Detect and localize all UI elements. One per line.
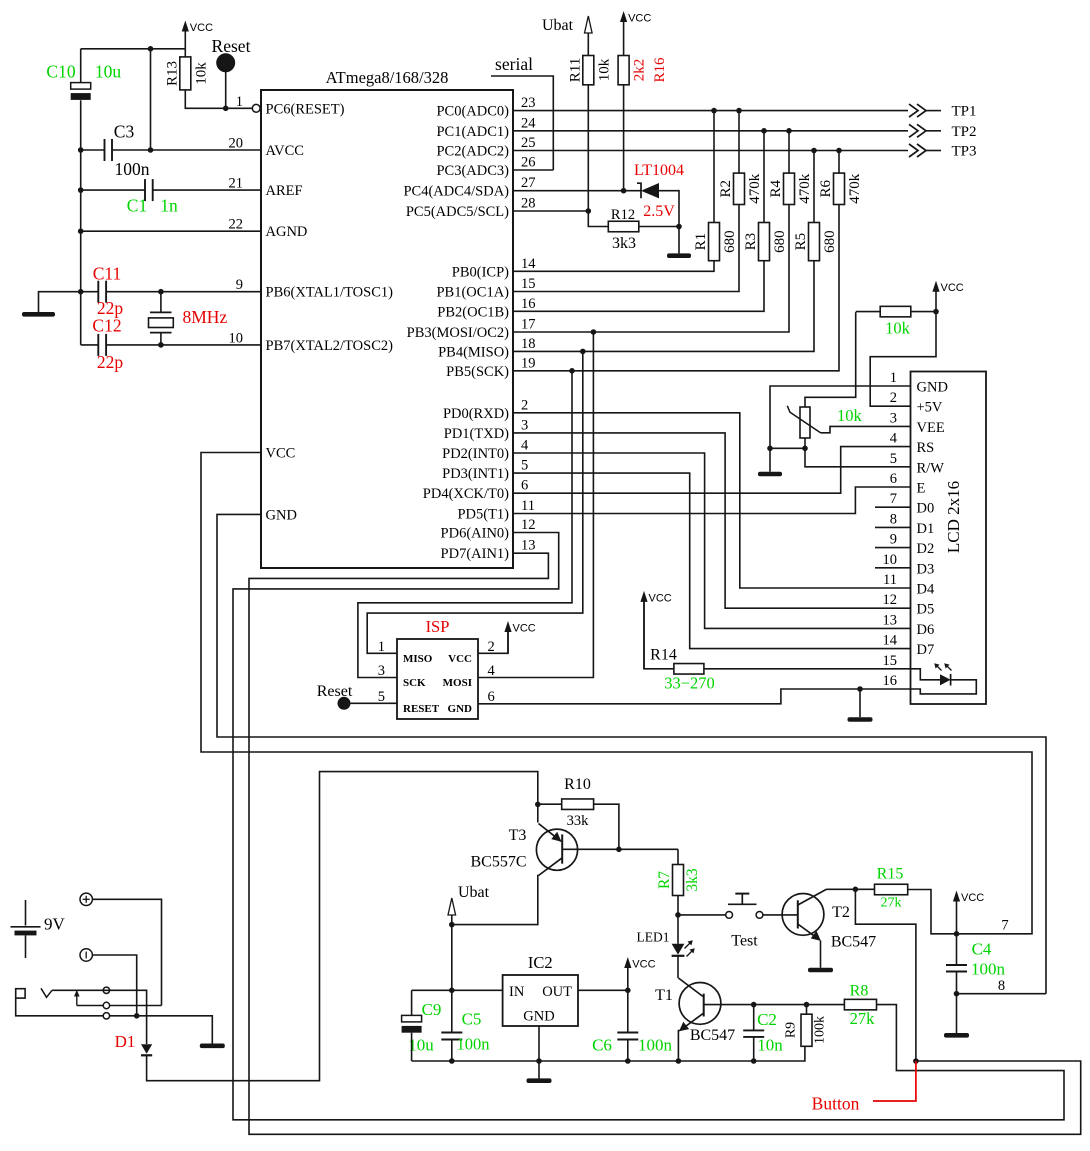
wire R7 top lead	[677, 849, 679, 864]
svg-text:C6: C6	[592, 1036, 612, 1055]
MCU pin 1 inverter circle	[252, 104, 260, 112]
svg-text:R16: R16	[652, 57, 668, 83]
wire C4 bottom lead	[956, 972, 958, 1034]
wire C5 top lead	[451, 990, 453, 1032]
svg-text:PB0(ICP): PB0(ICP)	[452, 264, 509, 280]
junction VCC / LCD +5V	[933, 309, 939, 315]
junction VCC rail / AVCC drop	[148, 46, 154, 52]
wire battery plus to jack	[92, 899, 161, 1005]
svg-text:PC0(ADC0): PC0(ADC0)	[436, 104, 509, 120]
svg-text:C1: C1	[127, 196, 147, 216]
LED LED1 emission arrows	[685, 943, 691, 949]
svg-text:TP2: TP2	[951, 124, 976, 140]
wire C2 top lead	[753, 1005, 755, 1031]
power flag VCC top-left	[184, 30, 186, 49]
svg-text:serial: serial	[495, 54, 533, 74]
junction crystal top / pin9 line	[158, 289, 164, 295]
wire T1 emitter to ground line	[678, 1031, 680, 1062]
wire C5 bottom lead	[451, 1040, 453, 1062]
resistor R2 470k	[734, 173, 745, 204]
wire pot wiper to LCD pin3 VEE	[821, 426, 911, 432]
connector LCD 2x16 body	[911, 372, 987, 705]
junction C2 bottom / ground line	[751, 1058, 757, 1064]
junction T1 base / C2 top	[751, 1002, 757, 1008]
svg-text:Reset: Reset	[212, 36, 251, 56]
transistor T2 BC547	[782, 894, 824, 936]
wire MCU PB7 pin 10 line	[106, 344, 261, 346]
capacitor C1	[144, 179, 146, 201]
wire T3 collector to Ubat node	[452, 876, 539, 925]
wire ISP pin2 VCC	[478, 632, 508, 653]
wire R7 top to base net	[619, 848, 678, 850]
svg-text:PD5(T1): PD5(T1)	[457, 507, 509, 523]
diode D2 LT1004 2.5V reference	[637, 183, 641, 198]
wire Ubat node down to IC2 IN	[451, 925, 453, 991]
svg-text:SCK: SCK	[403, 677, 426, 689]
battery BAT1 9V	[25, 900, 27, 926]
svg-text:3k3: 3k3	[612, 235, 636, 252]
capacitor C10 (electrolytic)	[71, 83, 91, 90]
wire LCD pin2 +5V	[870, 312, 936, 407]
junction R11/PC5	[586, 208, 592, 214]
svg-text:8: 8	[890, 511, 897, 527]
svg-text:R1: R1	[693, 233, 709, 251]
capacitor C2	[743, 1029, 764, 1031]
potentiometer contrast 10k body	[800, 407, 810, 438]
wire MCU pin 24 to TP2	[513, 130, 908, 132]
wire pot top lead	[805, 312, 856, 407]
junction reset/pin1	[223, 106, 229, 112]
svg-text:20: 20	[229, 136, 244, 152]
connector battery plus terminal	[80, 893, 92, 905]
wire LED1 cathode to T1 collector	[677, 956, 679, 978]
wire R1 top lead	[713, 111, 715, 223]
svg-text:MOSI: MOSI	[443, 677, 472, 689]
svg-text:R11: R11	[567, 58, 583, 82]
wire 10k right to VCC	[911, 311, 936, 313]
wire R4 top lead	[788, 131, 790, 173]
svg-text:2.5V: 2.5V	[643, 203, 675, 220]
svg-text:27k: 27k	[881, 896, 902, 911]
junction T1 emitter / ground line	[676, 1058, 682, 1064]
power flag VCC at ISP	[507, 630, 509, 653]
svg-text:VCC: VCC	[961, 892, 984, 904]
wire R1 bottom to MCU	[513, 261, 714, 272]
diode D1	[141, 1044, 152, 1054]
wire C9 top lead	[412, 989, 452, 991]
wire LCD pin1 GND	[770, 386, 911, 448]
wire R2 bottom to MCU	[513, 205, 739, 292]
wire jack switch pin link	[77, 1005, 103, 1007]
wire R3 top lead	[763, 131, 765, 223]
svg-text:2: 2	[890, 390, 897, 406]
svg-text:9: 9	[236, 277, 243, 293]
power flag VCC at R14	[643, 600, 645, 669]
junction pot ground left	[767, 446, 773, 452]
junction R10 right / R7 top / T3 base	[616, 847, 622, 853]
svg-text:D5: D5	[917, 602, 935, 618]
svg-text:100n: 100n	[638, 1036, 673, 1055]
svg-text:27k: 27k	[850, 1009, 876, 1028]
svg-text:22p: 22p	[97, 352, 124, 372]
wire button net down	[855, 889, 916, 1061]
svg-text:C9: C9	[422, 1000, 442, 1019]
svg-text:PD1(TXD): PD1(TXD)	[444, 426, 509, 442]
svg-text:10u: 10u	[95, 62, 122, 82]
svg-text:22: 22	[229, 217, 244, 233]
ground at IC2	[527, 1078, 552, 1083]
svg-text:BC547: BC547	[831, 934, 876, 951]
connector ISP pin name labels	[403, 653, 472, 715]
wire MCU PB6 pin 9 line	[106, 291, 261, 293]
MCU right pin name labels	[403, 104, 509, 563]
svg-text:LED1: LED1	[637, 930, 670, 945]
wire T2 collector to R15 node	[826, 888, 855, 890]
svg-text:1: 1	[890, 370, 897, 386]
capacitor C11	[97, 281, 99, 303]
connector LCD pin name labels	[917, 380, 948, 659]
ground at T2	[808, 968, 833, 973]
svg-text:24: 24	[521, 115, 536, 131]
svg-text:AREF: AREF	[266, 183, 303, 199]
svg-text:6: 6	[890, 471, 897, 487]
crystal Q1 8MHz	[150, 311, 172, 313]
wire R5 top lead	[813, 151, 815, 223]
svg-text:VCC: VCC	[649, 592, 672, 604]
svg-text:C10: C10	[46, 62, 75, 82]
svg-text:11: 11	[521, 498, 535, 514]
svg-text:IN: IN	[509, 984, 525, 1000]
wire MCU AVCC pin 20 line	[112, 149, 261, 151]
junction SCK tap	[569, 368, 575, 374]
wire R12 left to PC5 net	[588, 211, 608, 227]
svg-text:R2: R2	[718, 180, 734, 198]
wire serial underline to PC3	[491, 76, 553, 170]
transistor T3 BC557C	[536, 829, 577, 870]
svg-text:TP3: TP3	[951, 144, 976, 160]
junction R1 top	[711, 108, 717, 114]
resistor R10	[562, 799, 594, 810]
connector arrow TP2	[909, 124, 918, 137]
capacitor C9 (electrolytic)	[402, 1015, 422, 1022]
resistor R13	[180, 57, 191, 90]
svg-text:PB7(XTAL2/TOSC2): PB7(XTAL2/TOSC2)	[266, 338, 394, 354]
wire PD1 to LCD D5	[513, 433, 911, 608]
svg-text:10k: 10k	[193, 62, 209, 85]
junction LCD pin16 ground	[857, 686, 863, 692]
wire SCK from PB5 to ISP pin3	[358, 371, 572, 678]
junction Ubat node	[449, 922, 455, 928]
svg-text:470k: 470k	[747, 173, 763, 204]
svg-text:14: 14	[883, 633, 898, 649]
wire C9 bottom lead	[411, 1033, 413, 1061]
svg-text:T1: T1	[655, 987, 673, 1004]
wire R9 top lead	[806, 1005, 808, 1015]
connector jack sleeve pin	[103, 1013, 109, 1019]
svg-text:PB4(MISO): PB4(MISO)	[438, 344, 509, 360]
wire R14 right to LCD pin15	[704, 668, 911, 670]
svg-text:4: 4	[521, 438, 529, 454]
svg-text:OUT: OUT	[542, 984, 572, 1000]
svg-text:TP1: TP1	[951, 104, 976, 120]
wire R16 bottom to LT1004	[623, 85, 625, 191]
push-button Test	[726, 912, 733, 919]
wire MCU pin 27 PC4 line	[513, 190, 641, 192]
power flag VCC above LCD	[935, 290, 937, 312]
svg-text:10: 10	[883, 552, 898, 568]
wire R11 bottom to PC5	[587, 85, 589, 211]
connector ISP body	[397, 639, 478, 719]
junction R2 top	[736, 108, 742, 114]
wire IC2 OUT lead	[578, 989, 628, 991]
svg-text:15: 15	[521, 276, 536, 292]
junction C5 / ground line	[449, 1058, 455, 1064]
junction LT1004/R12 right	[676, 224, 682, 230]
svg-text:C3: C3	[114, 122, 135, 142]
svg-text:GND: GND	[523, 1009, 554, 1025]
svg-text:R5: R5	[793, 233, 809, 251]
resistor R1 680	[709, 223, 720, 261]
resistor R9	[801, 1014, 812, 1046]
MCU right pin number labels	[521, 95, 536, 554]
svg-text:9V: 9V	[44, 915, 66, 934]
junction rail/AREF	[78, 187, 84, 193]
resistor R16	[618, 56, 629, 85]
svg-text:27: 27	[521, 175, 536, 191]
wire MCU pin 26 PC3 line	[513, 169, 553, 171]
capacitor C5	[441, 1032, 462, 1034]
svg-text:R/W: R/W	[917, 460, 945, 476]
wire C11 left to rail and ground	[39, 292, 99, 312]
svg-text:10k: 10k	[837, 406, 863, 425]
wire MISO from PB4 to ISP pin1	[367, 351, 583, 653]
svg-text:GND: GND	[266, 507, 297, 523]
wire jack sleeve to ground	[110, 1016, 213, 1044]
svg-text:5: 5	[521, 458, 528, 474]
connector arrow TP1	[909, 104, 918, 117]
wire MOSI from PB3 to ISP pin4	[478, 332, 593, 678]
wire IC2 GND lead	[538, 1026, 540, 1078]
wire C1 left to rail	[81, 189, 145, 191]
svg-text:R13: R13	[164, 61, 180, 86]
svg-text:680: 680	[772, 230, 788, 253]
LED backlight inside LCD	[911, 669, 941, 680]
net label Button leader	[873, 1061, 916, 1101]
wire MCU GND pin to left rail	[217, 514, 1046, 993]
svg-text:GND: GND	[917, 380, 948, 396]
svg-text:C11: C11	[93, 264, 122, 284]
wire PD0 to LCD D4	[513, 413, 911, 588]
ground at contrast pot	[758, 472, 782, 477]
junction R4 top	[786, 128, 792, 134]
svg-text:19: 19	[521, 355, 536, 371]
wire C2 bottom lead	[753, 1037, 755, 1061]
wire PD5 to LCD E	[513, 487, 911, 514]
MCU left pin name labels	[266, 101, 394, 523]
svg-text:680: 680	[822, 230, 838, 253]
wire jack tip to D1	[103, 990, 146, 1044]
connector LCD pin stubs D0-D3	[875, 506, 911, 508]
svg-text:Button: Button	[812, 1094, 860, 1114]
wire VCC rail top-left	[81, 48, 186, 50]
wire IC2 IN lead	[452, 989, 503, 991]
svg-text:12: 12	[883, 592, 898, 608]
wire PD4 to LCD RS	[513, 447, 911, 494]
potentiometer wiper arrow	[787, 406, 820, 433]
connector jack switch pin	[103, 1002, 109, 1008]
svg-text:VCC: VCC	[941, 282, 964, 294]
junction button net / PD7 loop	[913, 1058, 919, 1064]
svg-text:4: 4	[890, 431, 898, 447]
svg-text:R10: R10	[564, 776, 591, 793]
resistor 10k LCD supply	[880, 306, 911, 317]
ground at C4	[944, 1033, 969, 1038]
svg-text:C12: C12	[92, 316, 121, 336]
svg-text:100k: 100k	[813, 1016, 828, 1044]
junction C4 bottom / GND line	[954, 991, 960, 997]
voltage regulator IC2 body	[503, 975, 578, 1026]
junction MISO tap	[580, 349, 586, 355]
svg-text:VCC: VCC	[632, 959, 655, 971]
svg-text:7: 7	[890, 491, 897, 507]
wire LT1004 anode down	[659, 191, 679, 254]
junction R5 top	[811, 148, 817, 154]
svg-text:2: 2	[488, 639, 495, 655]
wire crystal top lead	[160, 292, 162, 313]
resistor R11	[583, 56, 594, 85]
svg-text:PD3(INT1): PD3(INT1)	[442, 466, 509, 482]
junction IC2 OUT / C6 / VCC	[625, 988, 631, 994]
svg-text:Reset: Reset	[317, 683, 353, 700]
svg-text:PD0(RXD): PD0(RXD)	[443, 406, 509, 422]
junction AVCC line	[148, 147, 154, 153]
svg-text:10k: 10k	[885, 319, 911, 338]
svg-text:C2: C2	[757, 1010, 777, 1029]
svg-text:3: 3	[378, 663, 385, 679]
wire R3 bottom to MCU	[513, 261, 764, 312]
svg-text:PB6(XTAL1/TOSC1): PB6(XTAL1/TOSC1)	[266, 285, 394, 301]
svg-text:PB2(OC1B): PB2(OC1B)	[437, 304, 509, 320]
junction Ubat / C9 / C5 / IC2 IN	[449, 988, 455, 994]
junction C6 / ground line	[625, 1058, 631, 1064]
svg-text:D1: D1	[115, 1032, 136, 1051]
capacitor C6	[617, 1032, 638, 1034]
wire AVCC drop from VCC rail	[150, 49, 152, 150]
svg-text:PB3(MOSI/OC2): PB3(MOSI/OC2)	[407, 325, 509, 341]
power flag VCC at C4	[956, 900, 958, 934]
connector LCD pin number labels	[883, 370, 898, 689]
junction pot bottom	[802, 446, 808, 452]
connector battery minus terminal	[80, 949, 92, 961]
svg-text:470k: 470k	[797, 173, 813, 204]
svg-text:VCC: VCC	[266, 446, 296, 462]
wire MCU pin 23 to TP1	[513, 110, 908, 112]
svg-text:15: 15	[883, 653, 898, 669]
svg-text:R12: R12	[611, 207, 635, 223]
resistor R15	[875, 884, 908, 895]
svg-text:VCC: VCC	[628, 13, 651, 25]
svg-text:1: 1	[236, 94, 243, 110]
wire R6 bottom to MCU	[513, 205, 839, 371]
svg-text:33−270: 33−270	[664, 674, 715, 693]
resistor R3 680	[759, 223, 770, 261]
transistor T1 BC547	[679, 983, 721, 1025]
svg-text:16: 16	[883, 673, 898, 689]
jack switch arrow	[76, 994, 78, 1006]
wire MCU pin 25 to TP3	[513, 150, 908, 152]
svg-text:IC2: IC2	[528, 953, 553, 972]
svg-text:5: 5	[890, 451, 897, 467]
svg-text:D0: D0	[917, 501, 935, 517]
junction MOSI tap	[591, 329, 597, 335]
power flag Ubat top	[587, 32, 589, 56]
resistor R4 470k	[784, 173, 795, 204]
junction R3 top	[761, 128, 767, 134]
svg-text:VCC: VCC	[190, 22, 213, 34]
svg-text:PB5(SCK): PB5(SCK)	[446, 364, 509, 380]
junction VCC line / C4 top	[954, 931, 960, 937]
svg-text:ATmega8/168/328: ATmega8/168/328	[326, 68, 449, 87]
svg-text:100n: 100n	[457, 1035, 490, 1054]
svg-text:D7: D7	[917, 642, 935, 658]
wire C4 top lead	[956, 934, 958, 965]
wire MCU AREF pin 21 line	[153, 189, 261, 191]
svg-text:Ubat: Ubat	[458, 884, 490, 901]
svg-text:2: 2	[521, 397, 528, 413]
svg-text:21: 21	[229, 176, 244, 192]
svg-text:R3: R3	[743, 233, 759, 251]
svg-text:RESET: RESET	[403, 703, 440, 715]
svg-text:C5: C5	[462, 1010, 482, 1029]
resistor R8	[844, 999, 876, 1010]
svg-text:8: 8	[998, 978, 1005, 994]
svg-text:R6: R6	[818, 180, 834, 198]
svg-text:BC557C: BC557C	[470, 854, 526, 871]
svg-text:D4: D4	[917, 582, 935, 598]
svg-text:1n: 1n	[160, 196, 178, 216]
svg-text:14: 14	[521, 256, 536, 272]
capacitor C4	[946, 964, 967, 966]
svg-text:PC2(ADC2): PC2(ADC2)	[436, 144, 509, 160]
svg-text:R15: R15	[877, 866, 904, 883]
junction T2 collector / R15 / button net	[853, 887, 859, 893]
wire MCU VCC pin to left rail	[201, 453, 1032, 934]
wire Test right to T2 base	[763, 914, 798, 916]
wire pin8 GND link	[957, 993, 1047, 995]
svg-text:13: 13	[521, 538, 536, 554]
svg-text:RS: RS	[917, 440, 935, 456]
resistor R12	[608, 221, 639, 232]
svg-text:3: 3	[521, 417, 528, 433]
wire PD3 to LCD D7	[513, 473, 911, 648]
junction crystal bottom / pin10 line	[158, 342, 164, 348]
svg-text:470k: 470k	[847, 173, 863, 204]
svg-text:33k: 33k	[567, 813, 590, 829]
wire T2 emitter to ground	[820, 941, 822, 968]
wire MCU AGND pin 22 line	[81, 230, 261, 232]
svg-text:T3: T3	[509, 827, 527, 844]
svg-text:18: 18	[521, 336, 536, 352]
wire TP1 stub	[926, 110, 941, 112]
push-button Reset (ISP side) pad	[338, 697, 351, 710]
wire LED1 anode lead	[677, 915, 679, 944]
wire MCU pin 28 PC5 line	[513, 210, 588, 212]
svg-text:R7: R7	[656, 871, 673, 889]
wire 10k left to pot top	[856, 311, 881, 313]
ground at LCD pin16	[848, 717, 873, 722]
junction R9 top	[804, 1002, 810, 1008]
svg-text:AVCC: AVCC	[266, 143, 304, 159]
